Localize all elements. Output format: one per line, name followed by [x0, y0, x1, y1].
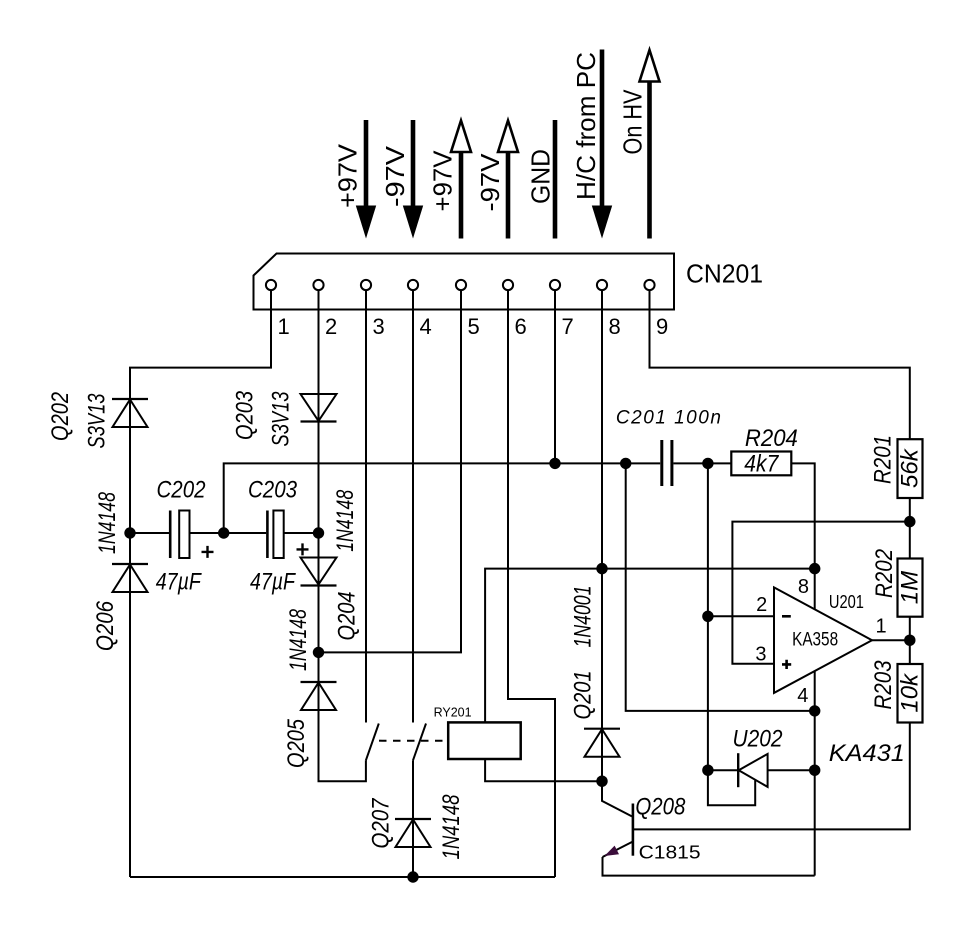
- wire pin 8 vertical: [601, 290, 603, 781]
- shunt regulator U202 KA431: [738, 753, 767, 787]
- diode Q207 1N4148: [395, 819, 431, 847]
- resistor R203 10k: [898, 664, 923, 723]
- wire relay coil to Q201 node: [485, 759, 602, 781]
- wire pin 5 to node: [319, 290, 462, 652]
- GND stub line pin 7: [553, 120, 558, 239]
- transistor Q208 C1815: [602, 781, 633, 857]
- junction dot R204 output: [809, 563, 820, 574]
- junction dot op-amp pin 2: [702, 611, 713, 622]
- svg-text:4: 4: [797, 685, 808, 707]
- svg-text:S3V13: S3V13: [84, 393, 111, 448]
- svg-text:GND: GND: [526, 149, 556, 204]
- junction dot Q201 relay node: [596, 776, 607, 787]
- svg-text:1N4001: 1N4001: [570, 586, 597, 648]
- svg-text:R201: R201: [870, 435, 897, 484]
- svg-text:Q204: Q204: [334, 592, 361, 641]
- junction dot U202 ref: [702, 765, 713, 776]
- wire bottom rail: [130, 876, 555, 878]
- svg-text:S3V13: S3V13: [268, 391, 295, 446]
- svg-text:1N4148: 1N4148: [285, 609, 312, 671]
- relay actuation dashed link: [379, 740, 448, 742]
- connector CN201 body: [254, 254, 675, 310]
- junction dot riser at GND row: [620, 458, 631, 469]
- wire R203 to Q208 base: [634, 723, 910, 830]
- resistor R201 56k: [898, 439, 923, 498]
- switch contact 1 blade: [366, 724, 379, 761]
- resistor R204 4k7: [731, 452, 791, 476]
- svg-text:1: 1: [278, 314, 290, 339]
- wire op-amp pin 8 riser: [814, 569, 816, 609]
- svg-text:Q205: Q205: [283, 718, 310, 768]
- junction dot R201 R202: [904, 516, 915, 527]
- wire U202 right: [768, 769, 815, 771]
- svg-text:3: 3: [373, 314, 385, 339]
- svg-text:U202: U202: [733, 725, 783, 752]
- junction dot pin 8 net: [596, 563, 607, 574]
- resistor R202 1M: [898, 559, 923, 617]
- junction dot C201 right: [702, 458, 713, 469]
- svg-text:47µF: 47µF: [156, 569, 202, 596]
- svg-text:Q203: Q203: [232, 390, 259, 440]
- junction dot op-amp pin 4: [809, 705, 820, 716]
- svg-text:9: 9: [656, 314, 668, 339]
- op-amp plus sign: [782, 660, 791, 669]
- svg-text:56k: 56k: [897, 447, 924, 488]
- junction dot Q204 Q205 node: [313, 647, 324, 658]
- switch contact 2 blade: [413, 724, 426, 761]
- svg-text:8: 8: [798, 576, 809, 598]
- svg-text:R202: R202: [871, 549, 898, 598]
- svg-text:6: 6: [515, 314, 527, 339]
- svg-text:+97V: +97V: [333, 143, 363, 208]
- wire op-amp pin 4 riser: [814, 672, 816, 876]
- svg-text:Q207: Q207: [368, 797, 395, 848]
- op-amp U1 KA358 triangle: [774, 587, 872, 693]
- junction dot GND pin 7: [549, 458, 560, 469]
- svg-text:1: 1: [876, 615, 887, 637]
- svg-text:Q201: Q201: [570, 671, 597, 720]
- svg-text:3: 3: [755, 643, 766, 665]
- wire R201 to R202: [909, 498, 911, 559]
- wire riser to op-amp pin 2: [707, 463, 709, 770]
- wire Q208 emitter to pin 4 riser: [603, 857, 815, 876]
- wire riser to op-amp pin 4 row: [626, 463, 815, 711]
- diode Q206 1N4148: [112, 564, 148, 592]
- svg-text:4k7: 4k7: [744, 451, 779, 478]
- junction dot cap mid node: [218, 527, 229, 538]
- svg-text:2: 2: [756, 594, 767, 616]
- wire C201 to R204: [673, 462, 731, 464]
- wire pin 1 to left rail: [130, 290, 271, 877]
- svg-text:R204: R204: [745, 425, 798, 452]
- svg-text:-97V: -97V: [475, 153, 505, 212]
- capacitor C202 47uF: [170, 511, 213, 559]
- arrow H/C from PC into pin 8: [592, 50, 612, 239]
- arrow -97V into pin 4: [403, 120, 423, 239]
- wire cap row left: [130, 532, 169, 534]
- svg-text:+97V: +97V: [428, 150, 458, 212]
- junction dot Q207 bottom: [407, 871, 418, 882]
- wire pin 9 to R201: [650, 290, 910, 439]
- wire pin 6 down: [508, 290, 555, 877]
- junction dot op-amp output: [904, 635, 915, 646]
- junction dot U202 cathode net: [809, 765, 820, 776]
- svg-text:CN201: CN201: [686, 259, 763, 289]
- svg-text:R203: R203: [870, 660, 897, 710]
- svg-text:C202: C202: [157, 477, 206, 504]
- svg-text:-97V: -97V: [380, 145, 410, 207]
- zener Q203 S3V13: [301, 394, 337, 422]
- svg-text:10k: 10k: [897, 672, 924, 713]
- arrow +97V into pin 3: [356, 120, 376, 239]
- capacitor C201 100n: [662, 440, 672, 486]
- svg-text:2: 2: [325, 314, 337, 339]
- svg-text:1M: 1M: [897, 571, 924, 604]
- svg-text:KA431: KA431: [829, 740, 905, 767]
- svg-text:5: 5: [468, 314, 480, 339]
- wire U202 reference tap: [708, 770, 755, 805]
- svg-text:On HV: On HV: [618, 89, 648, 155]
- wire switch 2 to bottom rail: [412, 760, 414, 877]
- op-amp minus sign: [782, 615, 791, 618]
- zener Q202 S3V13: [112, 399, 148, 427]
- wire pin 3 to switch: [365, 290, 367, 723]
- capacitor C203 47uF: [267, 511, 308, 559]
- svg-text:Q206: Q206: [92, 600, 119, 651]
- wire C202 C203 mid node riser to GND row: [224, 463, 661, 533]
- diode Q204 1N4148: [301, 558, 337, 586]
- svg-text:1N4148: 1N4148: [438, 794, 465, 859]
- relay coil RY201: [448, 722, 521, 759]
- svg-text:Q202: Q202: [47, 392, 74, 441]
- wire op-amp output: [872, 639, 910, 641]
- svg-text:1N4148: 1N4148: [94, 492, 121, 554]
- diode Q201 1N4001: [584, 729, 620, 757]
- wire cap row right: [284, 532, 319, 534]
- svg-text:47µF: 47µF: [250, 569, 296, 596]
- wire pin 4 to switch: [412, 290, 414, 723]
- svg-text:Q208: Q208: [635, 794, 686, 821]
- svg-text:U201: U201: [829, 592, 864, 612]
- svg-text:1N4148: 1N4148: [332, 489, 359, 551]
- wire R202 to R203: [909, 617, 911, 664]
- wire pin 2 vertical: [319, 290, 366, 781]
- wire op-amp pin 2 input: [708, 615, 774, 617]
- wire cap row mid: [190, 532, 267, 534]
- svg-text:4: 4: [420, 314, 432, 339]
- svg-text:KA358: KA358: [792, 630, 838, 651]
- wire H/C net horizontal: [485, 569, 815, 723]
- arrow -97V out of pin 6: [498, 121, 518, 239]
- junction dot C203 right: [313, 527, 324, 538]
- svg-text:C203: C203: [248, 477, 298, 504]
- svg-text:8: 8: [609, 314, 621, 339]
- wire feedback row to op-amp pin 3: [732, 522, 909, 664]
- junction dot C202 left: [124, 527, 135, 538]
- wire U202 left: [708, 769, 738, 771]
- svg-text:C1815: C1815: [639, 843, 701, 863]
- svg-text:7: 7: [562, 314, 574, 339]
- svg-text:RY201: RY201: [434, 706, 472, 720]
- svg-text:H/C from PC: H/C from PC: [571, 52, 601, 200]
- svg-text:C201 100n: C201 100n: [616, 408, 721, 429]
- wire pin 7 GND: [554, 290, 556, 463]
- diode Q205 1N4148: [301, 682, 337, 710]
- arrow +97V out of pin 5: [451, 121, 471, 239]
- arrow On HV out of pin 9: [640, 50, 660, 239]
- wire R204 output down to net: [791, 463, 814, 568]
